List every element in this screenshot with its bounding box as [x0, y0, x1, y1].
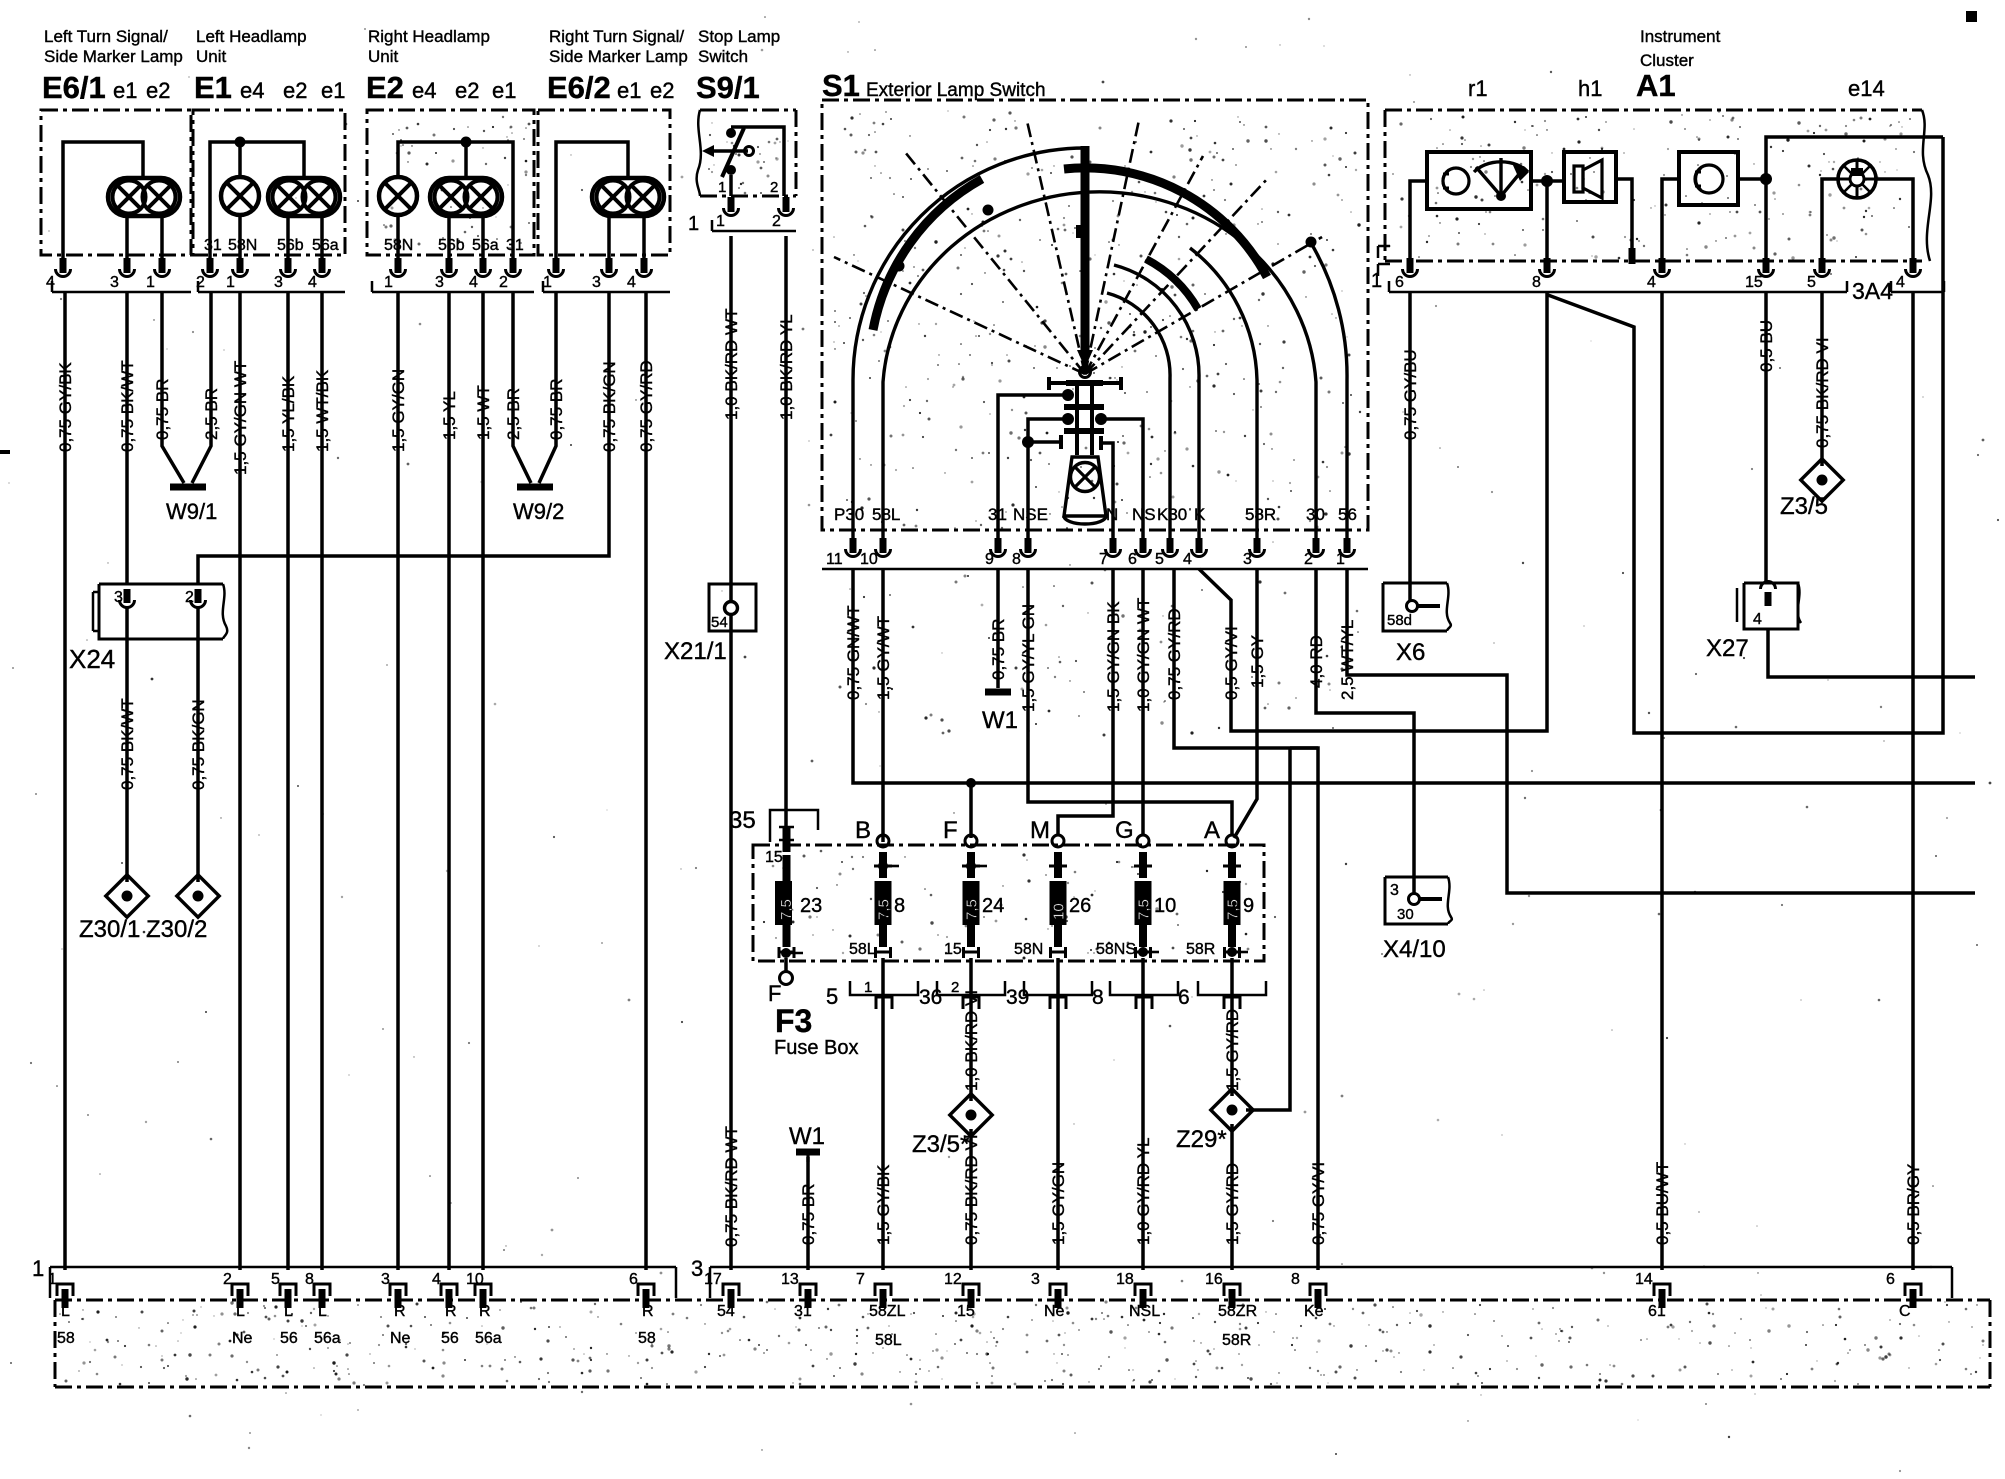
S1 rotary arc P30 — [853, 148, 1085, 548]
ground W1 lower — [796, 1149, 820, 1156]
wire 0,75 GY/RD E6/2-4 to terminal 58R — [644, 292, 648, 1270]
lamp S1 illumination — [1064, 457, 1106, 516]
wire indicator left lead — [1662, 179, 1679, 258]
connector block 1 pins — [57, 1284, 73, 1296]
torn edge S9/1 — [697, 110, 701, 196]
connector X4/10 — [1385, 877, 1448, 924]
fuse F3/1 output terminal F — [781, 948, 791, 958]
S1 rotary arc 58L-30 outer — [883, 192, 1316, 548]
horn h1 speaker symbol — [1574, 166, 1583, 192]
wire junction to pin 8 — [1545, 181, 1549, 258]
wire r1 to h1 — [1531, 179, 1564, 183]
page mark top right — [1966, 11, 1977, 22]
wire indicator to junction — [1738, 177, 1766, 181]
wire 0,75 GY/BK E6/1-4 to terminal 58L — [63, 292, 67, 1270]
wire S1 NSE lower stub — [1022, 436, 1034, 448]
wire 0,5 GY/VI S1 K to A1 pin 8 — [1199, 292, 1547, 731]
wire 1,5 GY/WT S1 58L to fuse B — [881, 569, 885, 842]
wire X24 pin3 to Z30/1 — [125, 608, 129, 882]
wire 2,5 BR E2-2 to ground W9/2 — [513, 292, 531, 483]
wire 1,5 GY/RD Z29* to terminal 58ZR — [1230, 1124, 1234, 1270]
gauge r1 meter symbol — [1476, 167, 1525, 196]
lamp e14 illumination — [1838, 160, 1876, 198]
S1 rotary arc K — [1114, 265, 1199, 548]
fuse F3 M 10A — [1052, 835, 1064, 847]
connector row S1 — [822, 568, 1368, 571]
lamp E2 dual filament 56b/56a — [430, 178, 502, 216]
wire 0,75 BK/WT E6/1-3 to X24 — [125, 292, 129, 584]
wire E2 lamp outputs — [396, 214, 400, 262]
wire 0,75 BR E6/1-1 to ground W9/1 — [162, 292, 184, 483]
wire S1 31 contact — [1062, 389, 1074, 401]
node E2 junction — [461, 137, 472, 148]
connector row E1 — [198, 291, 345, 294]
fuse F3/1 7,5A — [783, 855, 791, 881]
wire junction to pin 15 — [1764, 179, 1768, 258]
wire h1 right lead — [1616, 179, 1632, 261]
page mark left edge — [0, 450, 10, 454]
gauge r1 box — [1427, 152, 1531, 209]
splice Z30/1 — [106, 875, 148, 917]
wire X24 pin2 to Z30/2 — [196, 608, 200, 882]
wire E6/1 lamp outputs — [125, 216, 129, 262]
wire E6/1 internal feed — [63, 142, 143, 262]
wire 0,75 GY/BU A1-6 to X6 — [1408, 292, 1412, 601]
S1 selector radial dash lines — [905, 152, 1085, 374]
connector row E6/1 — [52, 291, 191, 294]
switch S9/1 actuator arrow — [712, 149, 748, 153]
wire 0,75 BR E6/2-1 to ground W9/2 — [539, 292, 556, 483]
wire 0,75 BK/RD VI Z3/5* to terminal 15 — [969, 1129, 973, 1270]
S1 contact ladder shaft — [1075, 383, 1079, 455]
wire 1,5 GY/GN BK S1 N to fuse M — [1058, 569, 1113, 836]
splice Z29* — [1211, 1089, 1253, 1131]
wire 1,5 GY/GN WT E1-1 to terminal Ne — [238, 292, 242, 1270]
switch S9/1 lever — [722, 128, 744, 177]
ground W1 upper — [985, 689, 1011, 696]
gauge r1 sensor circle — [1443, 168, 1469, 194]
wire 1,0 BK/RD WT S9/1-1 to X21/1 — [729, 236, 733, 601]
wire 1,5 GY S1 58R to fuse A — [1234, 569, 1257, 838]
S1 contact ladder bars — [1066, 380, 1103, 386]
fuse box feed bracket 35 — [770, 810, 818, 842]
wire 0,75 BR S1 31 to ground W1 — [996, 569, 1000, 688]
switch S9/1 contacts — [731, 127, 784, 196]
wire 1,0 BK/RD YL S9/1-2 to fuse box 15 — [784, 236, 788, 826]
wire 0,75 BK/GN E6/2-3 to X24 pin2 — [198, 292, 609, 584]
wire 0,75 BR terminal 31 to ground W1 — [806, 1157, 810, 1270]
wire 1,0 BK/RD VI fuse F to Z3/5* — [969, 1060, 973, 1101]
wire S9/1 pin1 stub — [729, 175, 733, 196]
S1 contact ladder top tees — [1049, 381, 1066, 385]
ground W9/1 — [170, 484, 206, 491]
wire 2,5 BR E1-2 to ground W9/1 — [192, 292, 211, 483]
splice Z3/5* — [950, 1094, 992, 1136]
wire 0,75 BK/RD VI A1-5 to Z3/5 — [1820, 292, 1824, 466]
splice Z30/2 — [177, 875, 219, 917]
wire fuse F feed from P30 rail — [969, 783, 973, 838]
component F3 Fuse Box — [753, 845, 1264, 961]
wire E6/2 lamp outputs — [607, 216, 611, 262]
horn h1 box — [1564, 152, 1616, 202]
S1 thick contact track inner right — [1146, 259, 1198, 309]
connector X24 — [99, 583, 223, 586]
connector block 3 pins — [723, 1284, 739, 1296]
wire 0,5 BR/GY A1 pin4 to terminal C — [1911, 292, 1915, 1270]
lamp E1 dual filament 56a/56b — [268, 178, 340, 216]
wire E2 internal feed — [398, 142, 513, 262]
S1 rotary arc 58R — [1190, 248, 1257, 548]
S1 thick contact track upper left — [873, 179, 982, 330]
wire K30 branch to Z29* — [1290, 746, 1318, 750]
fuse F3 B 7,5A — [877, 835, 889, 847]
wire 1,5 GY/YL GN S1 NSE to fuse A — [1028, 569, 1232, 836]
connector X21/1 — [709, 584, 756, 631]
wire 1,5 GY/GN E2-1 to terminal Ne — [396, 292, 400, 1270]
splice Z3/5 — [1801, 459, 1843, 501]
connector row A1 — [1389, 291, 1847, 294]
wire 1,5 YL/BK E1-3 to terminal 56 — [286, 292, 290, 1270]
S1 right edge stub — [1378, 246, 1390, 276]
connector row S9/1 — [712, 230, 796, 233]
S1 rotary arc K30 — [1107, 293, 1170, 548]
wire E1 lamp outputs — [238, 214, 242, 262]
connector row E2 — [372, 291, 534, 294]
wire A1 pin8 branch to right loop — [1548, 137, 1943, 733]
lamp E6/1 dual filament — [108, 178, 180, 216]
wire r1 left lead — [1410, 181, 1427, 258]
S1 lever — [1081, 146, 1090, 356]
fuse F3 G 7,5A — [1137, 835, 1149, 847]
wire X27 down and off page right — [1768, 629, 1975, 677]
wire E6/2 internal feed — [556, 142, 628, 262]
connector A1 pin4 separate bracket — [1891, 291, 1944, 294]
ground W9/2 — [517, 484, 553, 491]
wire 2,5 WT/YL S1 56 off page — [1347, 569, 1975, 893]
wire E1 internal feed — [210, 142, 304, 262]
wire 4,0 RD S1 30 to X4/10 — [1316, 569, 1414, 894]
connector X6 — [1383, 583, 1447, 631]
indicator lamp circle — [1695, 165, 1723, 193]
lamp E6/2 dual filament — [592, 178, 664, 216]
wire 0,75 GN/WT S1 P30 feed — [853, 569, 1975, 783]
indicator lamp box A1 — [1679, 152, 1738, 205]
S1 rotary arc 56 with detent dot — [1311, 243, 1347, 548]
wire E1 58N stub — [238, 142, 242, 178]
wire 1,5 WT E2-4 to terminal 56a — [481, 292, 485, 1270]
wire E2 dual stub — [464, 142, 468, 178]
S1 thick contact track upper right — [1064, 168, 1267, 277]
connector block 1 bracket — [50, 1266, 676, 1269]
wire 0,75 GY/RD S1 K30 to terminal Ke — [1174, 569, 1318, 1270]
node E1 junction — [235, 137, 246, 148]
lamp E2 58N single — [379, 177, 417, 215]
wire e14 left lead — [1822, 179, 1838, 258]
wire 1,5 WT/BK E1-4 to terminal 56a — [320, 292, 324, 1270]
connector row E6/2 — [543, 291, 670, 294]
wire S1 NS contact — [1095, 413, 1107, 425]
wire S1 N contact — [1101, 443, 1113, 540]
wire 1,5 YL E2-3 to terminal 56 — [447, 292, 451, 1270]
torn edge A1 right — [1922, 110, 1931, 261]
lamp E1 58N single — [221, 177, 259, 215]
S1 detent dots on arcs — [894, 261, 905, 272]
fuse F3 F 7,5A — [965, 835, 977, 847]
wire 0,5 BU A1-15 to X27 — [1764, 292, 1768, 581]
wire junction up and right — [1766, 137, 1943, 179]
wire 0,75 BK/RD WT X21/1 to terminal 54 — [729, 615, 733, 1270]
wire 0,5 BU/WT A1-4 to terminal 61 — [1660, 292, 1664, 1270]
node junction r1/h1 — [1541, 175, 1553, 187]
wire 1,0 GY/GN WT S1 NS to fuse G — [1141, 569, 1145, 836]
ground strip box bottom — [55, 1299, 1990, 1302]
wire S1 NSE contact — [1062, 413, 1074, 425]
wire e14 right lead — [1876, 179, 1913, 258]
fuse F3 A 7,5A — [1226, 835, 1238, 847]
node junction e14 feed — [1760, 173, 1772, 185]
connector X27 — [1736, 588, 1739, 622]
connector block 3 bracket — [710, 1266, 1952, 1269]
